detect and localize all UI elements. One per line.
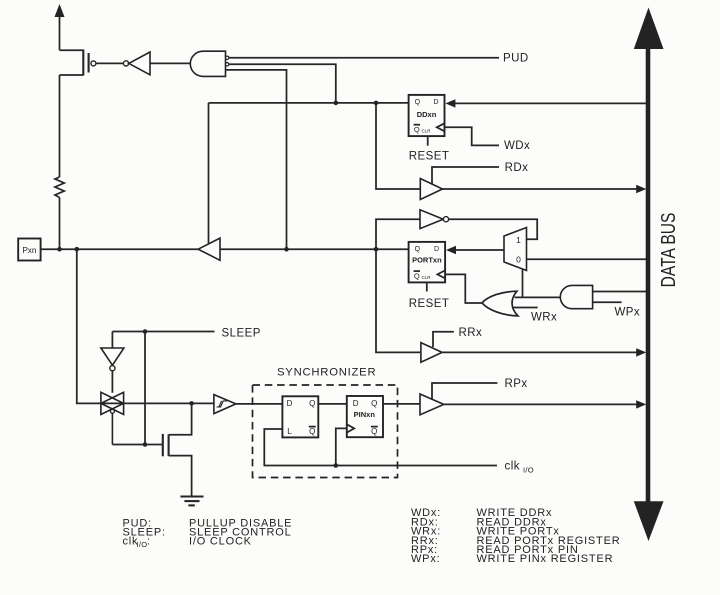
svg-text:D: D: [287, 399, 293, 408]
buffer output driver: [198, 103, 220, 260]
wire PORTxn Q net (driver input rail): [220, 248, 409, 250]
latch (synchronizer stage 1): [282, 396, 318, 437]
wire RPx output to data bus: [444, 400, 646, 408]
resistor pull-up: [55, 75, 64, 249]
svg-text:DATA BUS: DATA BUS: [658, 213, 680, 288]
svg-text:WRITE PINx REGISTER: WRITE PINx REGISTER: [477, 553, 614, 565]
svg-text:1: 1: [516, 235, 521, 245]
inverter U1 (pull-up enable inverter): [123, 52, 150, 75]
svg-text:0: 0: [516, 255, 521, 265]
flip-flop PORTxn: [409, 242, 446, 283]
Pxn pad box: [18, 239, 40, 261]
wire WDx clock: [445, 127, 500, 145]
inverter U3 (SLEEP inverter): [101, 348, 124, 393]
junction pass gate / NMOS drain: [189, 401, 194, 406]
wire latch L / clk net: [264, 429, 497, 466]
junction sleep gate wire: [143, 442, 148, 447]
svg-text:Q: Q: [371, 427, 377, 436]
wire RDx output to data bus: [443, 185, 647, 193]
synchronizer dashed box: [253, 385, 398, 478]
wire DDxn D input from data bus: [445, 99, 646, 107]
buffer RRx: [421, 332, 454, 362]
junction pin/sleep-gate branch: [75, 247, 80, 252]
svg-text:SYNCHRONIZER: SYNCHRONIZER: [277, 367, 376, 379]
RESET stub (PORTxn CLR): [426, 282, 428, 291]
wire AND output to OR / mux select: [515, 296, 561, 298]
svg-text:PINxn: PINxn: [354, 410, 376, 419]
RESET stub (DDxn CLR): [427, 136, 429, 146]
svg-text:CLR: CLR: [422, 129, 432, 134]
transmission gate (sleep pass gate): [101, 392, 124, 444]
svg-text:Q: Q: [371, 399, 377, 408]
svg-text:I/O: I/O: [523, 466, 534, 475]
svg-text:CLR: CLR: [422, 275, 432, 280]
legend right: [411, 507, 620, 565]
svg-text:D: D: [433, 99, 438, 106]
junction clk / PINxn clock: [334, 463, 339, 468]
wire PORTxn Q to inverter input: [376, 219, 420, 249]
wire latch Q to PINxn D: [318, 403, 347, 405]
svg-text:SLEEP: SLEEP: [222, 327, 261, 339]
svg-text:L: L: [287, 427, 292, 436]
transistor pull-up PMOS: [60, 50, 96, 76]
svg-text:clk: clk: [505, 461, 520, 473]
wire WPx stub: [593, 301, 622, 303]
wire schmitt to latch D: [236, 403, 283, 405]
wire RRx output to data bus: [442, 348, 646, 356]
svg-text:Q: Q: [309, 399, 315, 408]
wire mux output to PORTxn D: [446, 246, 504, 254]
svg-text:WRx: WRx: [531, 311, 557, 323]
buffer RPx: [420, 383, 497, 415]
svg-text:DDxn: DDxn: [417, 110, 437, 119]
wire PORTxn clock from OR gate: [445, 274, 482, 303]
svg-text:Pxn: Pxn: [22, 246, 37, 255]
wire AND bottom input to PORTxn Q net: [226, 70, 287, 249]
wire inverter to AND gate output: [150, 62, 192, 64]
node Pxn pin rail: [41, 248, 199, 250]
transistor NMOS (sleep clamp): [163, 403, 192, 496]
junction DDxn Q / AND input: [334, 101, 339, 106]
svg-text:Q: Q: [415, 246, 421, 253]
inverter U2 (PINx toggle inverter): [420, 210, 449, 229]
svg-text:D: D: [434, 246, 439, 253]
svg-text:WPx: WPx: [615, 307, 641, 319]
wire Pxn to pass gate / schmitt trigger: [77, 249, 214, 403]
svg-text::: :: [147, 536, 151, 548]
wire AND middle input to DDxn Q net: [229, 64, 336, 103]
OR gate (WRx | WPx clock): [482, 291, 518, 316]
wire mux 0 input from data bus: [527, 258, 647, 260]
svg-text:D: D: [353, 399, 359, 408]
svg-text:RPx: RPx: [505, 378, 528, 390]
wire AND top input from data bus: [593, 291, 646, 293]
VCC power symbol: [55, 4, 65, 50]
wire PUD net: [229, 57, 499, 59]
legend left: [123, 517, 293, 549]
AND gate (WPx & data bus): [560, 285, 592, 308]
wire clk to PINxn clock: [336, 428, 347, 465]
svg-text:PORTxn: PORTxn: [412, 255, 442, 264]
svg-text:Q: Q: [414, 125, 420, 134]
junction Q net / RRx branch: [374, 247, 379, 252]
schmitt trigger buffer: [214, 395, 236, 414]
junction SLEEP / NMOS gate branch: [143, 329, 148, 334]
wire PINxn Q to RPx: [383, 403, 420, 405]
svg-text:WPx:: WPx:: [411, 553, 440, 565]
flip-flop DDxn: [409, 95, 445, 136]
svg-text:I/O CLOCK: I/O CLOCK: [189, 536, 252, 548]
wire SLEEP to NMOS gate: [112, 332, 162, 445]
svg-text:RESET: RESET: [409, 298, 450, 310]
wire SLEEP net: [112, 332, 214, 349]
svg-text:RRx: RRx: [459, 327, 483, 339]
svg-text:WDx: WDx: [504, 140, 530, 152]
svg-text:I/O: I/O: [137, 540, 148, 549]
flip-flop PINxn: [347, 396, 383, 437]
svg-text:PUD: PUD: [503, 52, 529, 64]
wire DDxn Q to RDx input: [376, 103, 420, 189]
junction pin/resistor: [57, 247, 62, 252]
wire DDxn Q net: [209, 102, 409, 104]
ground: [180, 497, 203, 506]
wire PORTxn Q to RRx input: [376, 249, 421, 352]
svg-text:Q: Q: [414, 272, 420, 281]
svg-text:Q: Q: [309, 427, 315, 436]
wire inverter to mux input 1: [449, 219, 538, 239]
junction Q net / AND input: [284, 247, 289, 252]
wire mux select: [522, 269, 524, 297]
data bus: [634, 8, 664, 542]
junction DDxn Q / RDx branch: [374, 101, 379, 106]
mux PORTxn D select: [504, 228, 527, 271]
wire PMOS gate to inverter: [96, 62, 123, 64]
svg-text:RDx: RDx: [505, 162, 529, 174]
buffer RDx: [420, 167, 499, 200]
AND gate A1 (pull-up enable): [190, 51, 229, 76]
svg-text:RESET: RESET: [409, 151, 450, 163]
wire WRx stub: [514, 307, 538, 309]
svg-text:Q: Q: [415, 99, 421, 106]
